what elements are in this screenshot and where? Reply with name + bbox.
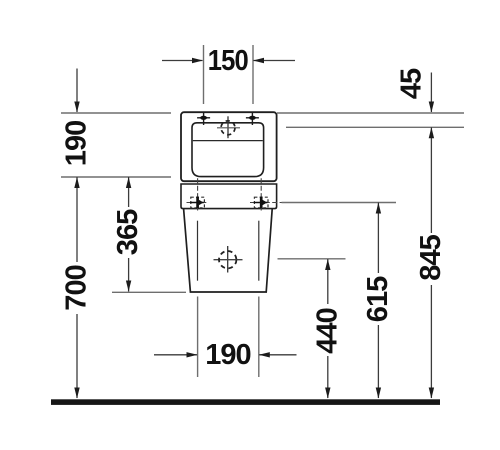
svg-text:45: 45 bbox=[396, 68, 428, 99]
svg-text:365: 365 bbox=[112, 209, 144, 255]
svg-text:845: 845 bbox=[415, 234, 447, 280]
svg-text:615: 615 bbox=[362, 276, 394, 322]
svg-text:190: 190 bbox=[205, 339, 250, 371]
svg-text:440: 440 bbox=[311, 308, 343, 353]
svg-text:190: 190 bbox=[61, 121, 93, 166]
svg-text:700: 700 bbox=[61, 265, 93, 310]
svg-text:150: 150 bbox=[208, 45, 248, 77]
